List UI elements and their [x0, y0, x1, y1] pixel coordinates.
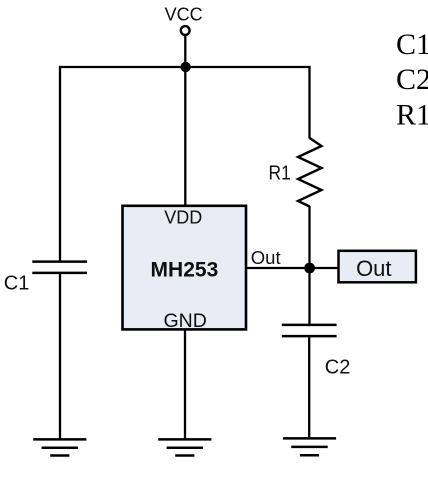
wire out node to C2 [308, 268, 310, 324]
svg-text:C2: C2 [325, 357, 351, 379]
ground (C1) [33, 439, 86, 455]
svg-text:MH253: MH253 [151, 258, 219, 281]
node VCC junction [180, 62, 190, 72]
svg-text:Out: Out [356, 256, 391, 281]
node Out junction [304, 263, 315, 274]
ground (IC) [158, 439, 211, 455]
wire C1 to ground [59, 274, 61, 439]
wire VCC stub [184, 35, 186, 68]
wire left vertical upper [59, 66, 61, 261]
wire Out pin [246, 267, 310, 269]
wire top rail [59, 66, 310, 68]
wire VDD pin [184, 67, 186, 206]
svg-text:C1: C1 [4, 273, 30, 295]
VCC terminal circle [181, 26, 190, 35]
svg-text:C1: C1 [396, 28, 428, 61]
capacitor C1 [32, 262, 87, 273]
wire C2 to ground [308, 337, 310, 438]
port Out box [339, 251, 416, 282]
svg-text:R1: R1 [396, 99, 428, 132]
wire GND pin [184, 330, 186, 440]
svg-text:VDD: VDD [164, 207, 202, 227]
ground (C2) [283, 438, 336, 455]
wire right vertical upper [308, 66, 310, 139]
wire resistor to out node [308, 206, 310, 268]
resistor R1 [298, 138, 322, 207]
svg-text:R1: R1 [269, 162, 291, 185]
svg-text:VCC: VCC [165, 5, 203, 25]
svg-text:GND: GND [164, 310, 207, 332]
svg-text:C2: C2 [396, 63, 428, 96]
svg-text:Out: Out [251, 247, 281, 268]
capacitor C2 [282, 325, 337, 336]
op-amp U1 MH253 body [123, 206, 247, 330]
wire junction to Out box [310, 267, 339, 269]
